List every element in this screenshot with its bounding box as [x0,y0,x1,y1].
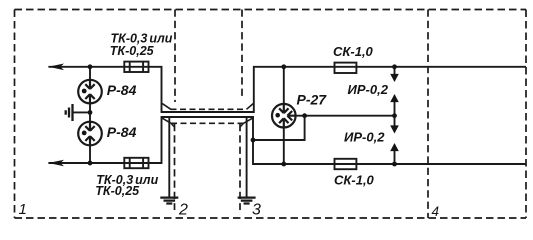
svg-text:3: 3 [252,202,261,219]
svg-text:ТК-0,25: ТК-0,25 [110,44,155,58]
svg-text:Р-84: Р-84 [107,124,137,140]
svg-text:СК-1,0: СК-1,0 [333,44,374,59]
svg-text:ИР-0,2: ИР-0,2 [348,82,389,97]
svg-text:СК-1,0: СК-1,0 [334,172,375,187]
svg-text:ТК-0,25: ТК-0,25 [95,184,140,198]
svg-text:1: 1 [19,201,27,218]
svg-text:Р-84: Р-84 [107,82,137,98]
svg-text:ИР-0,2: ИР-0,2 [344,130,385,145]
svg-text:2: 2 [178,202,188,219]
svg-text:Р-27: Р-27 [297,91,328,107]
svg-text:4: 4 [432,204,440,219]
